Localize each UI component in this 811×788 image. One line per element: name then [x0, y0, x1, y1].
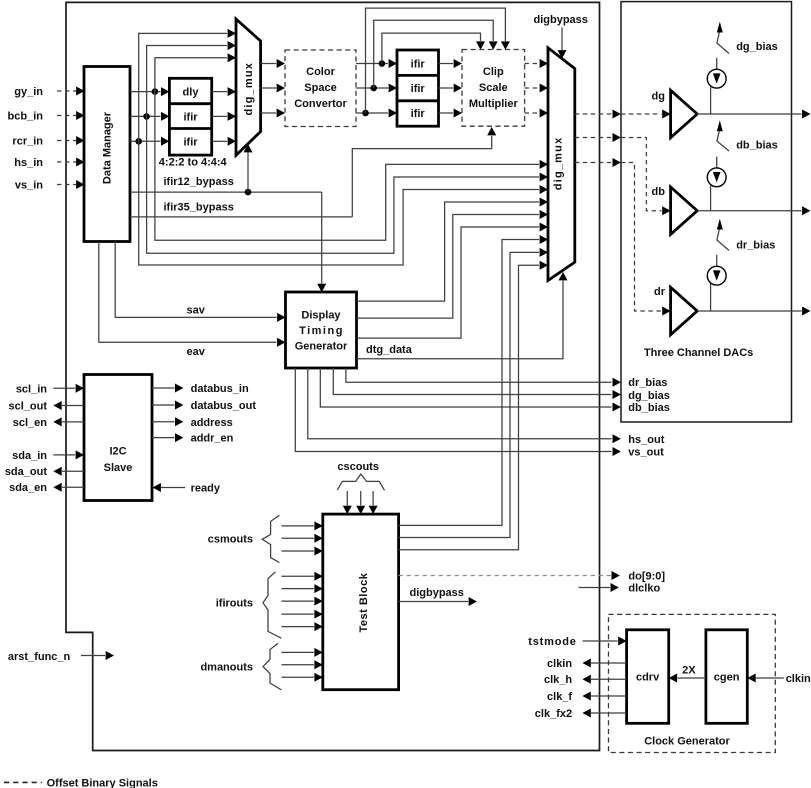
wire address — [152, 421, 175, 423]
svg-text:Clip: Clip — [483, 66, 504, 78]
wire TB out1 to dig_mux2 input7 — [399, 240, 539, 526]
wire dig_mux2 dashed out dg — [575, 113, 612, 115]
wire stub below current source dg — [710, 86, 712, 114]
svg-text:Data Manager: Data Manager — [102, 111, 114, 184]
wire ifir12_bypass — [130, 191, 322, 193]
wire row1 down-loop to dig_mux2 input1 — [155, 92, 539, 241]
svg-text:dg_bias: dg_bias — [628, 390, 670, 402]
wire DM to dly row1 — [130, 91, 161, 93]
wire cgen to cdrv — [677, 677, 706, 679]
svg-text:ifir: ifir — [411, 59, 426, 71]
wire DM to ifir row2 — [130, 115, 161, 117]
wire csmouts 3 — [281, 550, 314, 552]
wire ifir2 out2 to clip scale — [439, 87, 454, 89]
svg-text:bcb_in: bcb_in — [8, 111, 44, 123]
wire loop row1 over top to clip scale — [382, 33, 481, 63]
current source dr — [707, 266, 726, 285]
wire dig_mux out3 to CSC — [261, 112, 276, 114]
wire DTG bottom to hs_out — [308, 368, 612, 439]
svg-text:dr_bias: dr_bias — [628, 377, 667, 389]
svg-text:digbypass: digbypass — [534, 14, 588, 26]
wire DTG bottom to db_bias output — [320, 368, 611, 407]
svg-text:ready: ready — [191, 483, 221, 495]
svg-text:scl_in: scl_in — [16, 383, 47, 395]
wire scl_in — [53, 387, 75, 389]
DAC box — [621, 2, 792, 422]
wire ifirouts 4 — [281, 613, 314, 615]
svg-text:db: db — [652, 186, 666, 198]
block cdrv — [627, 630, 669, 724]
svg-text:sda_en: sda_en — [9, 482, 47, 494]
wire databus_out — [152, 404, 175, 406]
svg-text:gy_in: gy_in — [14, 86, 43, 98]
current source dg — [707, 69, 726, 88]
svg-text:I2C: I2C — [109, 446, 126, 458]
wire ifir out to dig_mux — [212, 115, 227, 117]
wire bcb_in dashed stub — [57, 115, 76, 117]
wire digbypass down into dig_mux2 top — [561, 28, 563, 51]
wire rcr_in dashed stub — [57, 140, 76, 142]
svg-text:rcr_in: rcr_in — [12, 136, 43, 148]
wire ifirouts 5 — [281, 626, 314, 628]
block dly ifir ifir stack — [169, 78, 211, 155]
wire gy_in dashed stub — [57, 90, 76, 92]
svg-text:dig_mux: dig_mux — [553, 137, 565, 191]
wire stub above current source dr — [716, 255, 718, 266]
wire cscouts arrow 3 into Test Block — [372, 491, 374, 506]
junction CSC out3 — [362, 110, 369, 117]
mux dig_mux 2 — [548, 48, 575, 281]
svg-text:Convertor: Convertor — [294, 98, 347, 110]
wire sda_out — [62, 470, 84, 472]
db channel current source and bias — [697, 120, 810, 215]
wire DM to ifir row3 — [130, 140, 161, 142]
junction CSC out2 — [370, 85, 377, 92]
wire loop row3 over top to clip scale — [366, 8, 506, 113]
bias arrow db — [717, 120, 723, 131]
svg-text:cgen: cgen — [714, 672, 740, 684]
svg-text:Test Block: Test Block — [358, 572, 370, 632]
svg-text:dig_mux: dig_mux — [243, 62, 255, 116]
amplifier db — [671, 187, 698, 234]
svg-text:tstmode: tstmode — [528, 636, 576, 648]
block Color Space Convertor — [285, 50, 356, 127]
wire dmanouts 1 — [281, 651, 314, 653]
svg-text:ifir: ifir — [411, 108, 426, 120]
wire bypass row1 up to dig_mux top input — [155, 58, 227, 92]
svg-text:hs_out: hs_out — [628, 434, 664, 446]
svg-text:ifir12_bypass: ifir12_bypass — [164, 176, 234, 188]
svg-text:csmouts: csmouts — [208, 534, 253, 546]
clock generator dashed box — [609, 614, 776, 752]
wire digbypass out of Test Block — [399, 601, 468, 603]
svg-text:dr_bias: dr_bias — [736, 240, 775, 252]
block Clip Scale Multiplier — [462, 50, 525, 127]
junction CSC out1 — [379, 60, 386, 67]
svg-text:2X: 2X — [682, 665, 696, 677]
svg-text:hs_in: hs_in — [14, 157, 43, 169]
dg channel current source and bias — [697, 22, 810, 119]
wire cscouts arrow 1 into Test Block — [346, 491, 348, 506]
wire clk_h out of cdrv — [591, 678, 627, 680]
wire clkin out of cdrv — [591, 662, 627, 664]
wire ifir35_bypass up to clip scale bottom — [352, 136, 491, 217]
svg-text:scl_out: scl_out — [8, 401, 47, 413]
svg-text:db_bias: db_bias — [736, 140, 778, 152]
wire dmanouts 3 — [281, 676, 314, 678]
wire TB out3 to dig_mux2 input9 — [399, 265, 539, 550]
svg-text:dr: dr — [654, 286, 666, 298]
wire dly out to dig_mux — [212, 91, 227, 93]
wire DTG out2 to dig_mux2 input5 — [357, 215, 540, 319]
wire junction up into dig_mux bottom — [247, 153, 249, 193]
wire addr_en — [152, 437, 175, 439]
amplifier dg — [671, 90, 698, 137]
wire ifir35_bypass — [130, 216, 352, 218]
block Display Timing Generator — [286, 292, 357, 368]
junction row3 — [135, 138, 142, 145]
wire do[9:0] dashed out — [399, 575, 611, 577]
wire CSM out1 dashed to dig_mux2 — [525, 63, 540, 65]
wire tstmode into cdrv — [583, 640, 618, 642]
junction row2 — [143, 113, 150, 120]
svg-text:clk_f: clk_f — [547, 691, 572, 703]
wire ifir12_bypass down into DTG top — [321, 192, 323, 283]
svg-text:ifir35_bypass: ifir35_bypass — [164, 202, 234, 214]
svg-text:Slave: Slave — [104, 462, 133, 474]
svg-text:db_bias: db_bias — [628, 402, 670, 414]
svg-text:Timing: Timing — [299, 325, 344, 337]
wire bypass row3 up to dig_mux top input — [139, 33, 227, 141]
wire hs_in dashed stub — [57, 161, 76, 163]
svg-text:sav: sav — [187, 305, 206, 317]
mux dig_mux 1 — [236, 19, 261, 155]
svg-text:dg: dg — [652, 90, 665, 102]
svg-text:Multiplier: Multiplier — [469, 98, 519, 110]
svg-text:ifir: ifir — [411, 83, 426, 95]
wire sav from DM bottom to DTG — [115, 242, 276, 318]
wire csmouts 1 — [281, 525, 314, 527]
wire TB out2 to dig_mux2 input8 — [399, 252, 539, 537]
svg-text:cscouts: cscouts — [337, 461, 379, 473]
wire dig_mux out2 to CSC — [261, 87, 276, 89]
wire row3 down-loop to dig_mux2 input3 — [139, 141, 539, 265]
block Test Block — [323, 514, 399, 690]
wire dlclko out — [579, 587, 610, 589]
wire ifirouts 2 — [281, 588, 314, 590]
svg-text:Three Channel DACs: Three Channel DACs — [644, 347, 753, 359]
block Data Manager — [84, 67, 130, 242]
chip outline — [66, 2, 600, 750]
legend dashes — [4, 781, 42, 783]
wire CSC out1 to ifir — [356, 63, 388, 65]
svg-text:clkin: clkin — [786, 673, 811, 685]
wire dg output — [697, 113, 801, 115]
wire stub below current source db — [710, 185, 712, 210]
svg-text:Display: Display — [301, 309, 341, 321]
svg-text:vs_out: vs_out — [628, 447, 664, 459]
wire dr output — [697, 310, 801, 312]
svg-text:databus_in: databus_in — [191, 383, 249, 395]
wire dig_mux out1 to CSC — [261, 63, 276, 65]
svg-text:vs_in: vs_in — [15, 180, 43, 192]
dr channel current source and bias — [697, 219, 810, 316]
wire stub above current source dg — [716, 58, 718, 69]
wire ifir2 out1 to clip scale — [439, 63, 454, 65]
svg-text:clkin: clkin — [547, 658, 572, 670]
wire csmouts 2 — [281, 537, 314, 539]
wire sda_en — [62, 486, 84, 488]
block ifir stack 2 — [397, 50, 439, 126]
wire scl_en — [62, 421, 84, 423]
svg-text:dtg_data: dtg_data — [366, 344, 413, 356]
svg-text:Offset Binary Signals: Offset Binary Signals — [47, 778, 158, 788]
svg-text:do[9:0]: do[9:0] — [628, 571, 665, 583]
wire ready into I2C — [161, 487, 185, 489]
svg-text:ifir: ifir — [183, 111, 198, 123]
svg-text:Color: Color — [306, 66, 335, 78]
wire CSC out3 to ifir — [356, 112, 388, 114]
svg-text:address: address — [191, 417, 233, 429]
wire ifir2 out3 to clip scale — [439, 112, 454, 114]
wire cscouts arrow 2 into Test Block — [360, 491, 362, 506]
wire stub above current source db — [716, 157, 718, 168]
brace dmanouts — [263, 643, 281, 690]
wire sda_in — [53, 454, 75, 456]
svg-text:dmanouts: dmanouts — [200, 662, 253, 674]
wire CSM out3 dashed to dig_mux2 — [525, 112, 540, 114]
brace ifirouts — [263, 572, 281, 638]
svg-text:arst_func_n: arst_func_n — [8, 651, 71, 663]
svg-text:4:2:2 to 4:4:4: 4:2:2 to 4:4:4 — [159, 157, 228, 169]
svg-text:eav: eav — [187, 346, 206, 358]
svg-text:ifirouts: ifirouts — [216, 598, 253, 610]
wire databus_in — [152, 387, 175, 389]
wire ifirouts 1 — [281, 575, 314, 577]
wire arst_func_n — [81, 655, 105, 657]
wire CSC out2 to ifir — [356, 87, 388, 89]
wire scl_out — [62, 405, 84, 407]
bias arrow dg — [717, 22, 723, 33]
svg-text:clk_h: clk_h — [544, 674, 572, 686]
wire ifirouts 3 — [281, 600, 314, 602]
svg-text:Space: Space — [304, 82, 336, 94]
wire clkin into cgen — [756, 677, 784, 679]
svg-text:scl_en: scl_en — [13, 417, 48, 429]
svg-text:dg_bias: dg_bias — [736, 41, 778, 53]
wire DTG bottom to vs_out — [295, 368, 611, 452]
wire row2 down-loop to dig_mux2 input2 — [147, 116, 539, 253]
current source db — [707, 168, 726, 187]
wire dig_mux2 dashed out db — [575, 137, 612, 139]
svg-text:Clock Generator: Clock Generator — [644, 736, 730, 748]
svg-text:sda_out: sda_out — [5, 466, 48, 478]
wire db output — [697, 210, 801, 212]
wire CSM out2 dashed to dig_mux2 — [525, 87, 540, 89]
junction row1 — [152, 88, 159, 95]
svg-text:ifir: ifir — [183, 136, 198, 148]
wire stub below current source dr — [710, 283, 712, 311]
wire dmanouts 2 — [281, 664, 314, 666]
block I2C Slave — [84, 375, 152, 501]
brace csmouts — [262, 515, 279, 562]
svg-text:databus_out: databus_out — [191, 400, 257, 412]
wire clk_f out of cdrv — [591, 695, 627, 697]
wire DTG out3 to dig_mux2 input6 — [357, 227, 540, 338]
wire clk_fx2 out of cdrv — [591, 712, 627, 714]
wire vs_in dashed stub — [57, 184, 76, 186]
wire DTG bottom to dr_bias output — [346, 368, 612, 382]
svg-text:digbypass: digbypass — [410, 587, 464, 599]
svg-text:Generator: Generator — [295, 340, 348, 352]
wire loop row2 over top to clip scale — [374, 20, 494, 88]
svg-text:cdrv: cdrv — [636, 672, 660, 684]
wire ifir out to dig_mux — [212, 140, 227, 142]
wire bypass row2 up to dig_mux top input — [147, 46, 227, 117]
svg-text:dlclko: dlclko — [628, 583, 660, 595]
svg-text:clk_fx2: clk_fx2 — [535, 708, 572, 720]
wire dtg_data to dig_mux2 bottom — [357, 281, 564, 359]
block cgen — [706, 630, 747, 724]
bias arrow dr — [717, 219, 723, 230]
wire DTG out1 to dig_mux2 input4 — [357, 202, 540, 301]
junction ifir12_bypass — [245, 189, 252, 196]
wire dig_mux2 dashed out dr — [575, 162, 612, 164]
svg-text:sda_in: sda_in — [12, 450, 47, 462]
amplifier dr — [671, 287, 698, 334]
wire DTG bottom to dg_bias output — [333, 368, 611, 395]
svg-text:Scale: Scale — [479, 82, 508, 94]
brace cscouts — [337, 474, 384, 490]
svg-text:dly: dly — [183, 87, 200, 99]
svg-text:addr_en: addr_en — [191, 433, 234, 445]
wire eav from DM bottom to DTG — [99, 242, 277, 343]
